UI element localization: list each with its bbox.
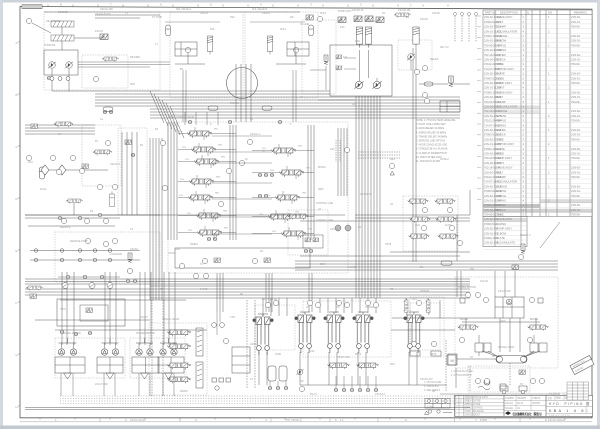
shutoff drop wires xyxy=(335,376,337,388)
main pump 1 xyxy=(355,81,364,88)
wire V4 xyxy=(73,203,75,215)
svg-text:5. TRAVEL RELIEF 34.8MPa: 5. TRAVEL RELIEF 34.8MPa xyxy=(416,135,448,138)
drain pair xyxy=(126,279,130,283)
right verticals mid xyxy=(456,215,458,261)
opt port R xyxy=(431,351,441,356)
motor lever bracket xyxy=(109,338,111,343)
solenoid block B enclosure xyxy=(245,12,318,98)
travel motor M3 xyxy=(101,349,107,355)
svg-text:P LINE: P LINE xyxy=(200,288,208,291)
oval link D xyxy=(441,261,452,265)
bl bottom circles xyxy=(60,330,64,334)
svg-text:SOL VALVE B: SOL VALVE B xyxy=(252,8,267,11)
brake cyl R2 xyxy=(539,343,547,352)
travel valve 1 xyxy=(167,330,190,336)
svg-text:21N-60: 21N-60 xyxy=(432,12,441,15)
svg-text:FLANGE: FLANGE xyxy=(497,34,508,38)
svg-text:ACCUMULATO: ACCUMULATO xyxy=(497,241,516,245)
svg-text:21N: 21N xyxy=(340,26,345,29)
solenoid SA3 xyxy=(365,16,373,22)
svg-text:AUX2: AUX2 xyxy=(445,224,452,227)
balloon 10 xyxy=(422,92,427,97)
relief valve RV1 xyxy=(100,34,108,40)
table rows text xyxy=(484,15,581,216)
svg-text:10. PAINT AFTER ASSY: 10. PAINT AFTER ASSY xyxy=(416,156,442,159)
funnel xyxy=(141,373,149,379)
pilot valve L enclosure xyxy=(255,305,295,350)
lower box balloon 2 xyxy=(252,258,257,263)
svg-text:O-RING: O-RING xyxy=(497,199,507,203)
svg-text:SHUT OFF: SHUT OFF xyxy=(338,356,350,359)
control valve CV2 xyxy=(191,147,215,154)
mid-left cluster verticals xyxy=(121,132,123,215)
title center cells xyxy=(504,395,546,410)
balloon s2 xyxy=(483,297,488,302)
lower box balloon 3 xyxy=(179,263,184,268)
scan shadow right xyxy=(597,0,600,429)
opt balloon R xyxy=(431,341,436,346)
bl filter box inner xyxy=(80,305,108,321)
svg-text:ACCUMULATOR: ACCUMULATOR xyxy=(497,29,518,33)
balloon 12b xyxy=(421,225,426,230)
manifold verticals xyxy=(167,122,169,240)
M box wire xyxy=(457,358,496,360)
svg-text:COMPD: COMPD xyxy=(505,397,514,400)
balloon pr1 xyxy=(389,163,394,168)
oval link A xyxy=(208,106,218,110)
motor lever bracket xyxy=(144,338,146,343)
svg-text:21N-60: 21N-60 xyxy=(420,18,429,21)
leader xyxy=(32,23,51,33)
balloon 1 xyxy=(26,18,31,23)
svg-text:PLATE: PLATE xyxy=(497,236,506,240)
svg-text:NIPPLE: NIPPLE xyxy=(497,194,507,198)
pilot port 1 xyxy=(334,388,338,392)
svg-text:709-90-: 709-90- xyxy=(571,213,580,217)
brake valve R xyxy=(528,325,548,331)
svg-text:HOSE: HOSE xyxy=(497,76,505,80)
swing feed verticals xyxy=(456,271,458,297)
svg-text:PUMP ASSY: PUMP ASSY xyxy=(497,81,513,85)
row index ticks xyxy=(477,16,481,200)
valve V5 xyxy=(394,13,410,18)
revision table xyxy=(455,395,505,416)
pilot valve R enclosure xyxy=(410,303,440,350)
control valve CV10 xyxy=(275,195,299,202)
svg-text:RTN: RTN xyxy=(130,83,135,86)
strainer S1 diamond xyxy=(41,165,49,175)
valve stubs xyxy=(252,172,279,174)
top band horizontals xyxy=(95,14,160,16)
motor block 3 xyxy=(132,357,159,373)
svg-text:2. 21N-62-312: 2. 21N-62-312 xyxy=(424,386,439,388)
svg-text:21N-62-: 21N-62- xyxy=(571,15,581,19)
svg-text:21N-54: 21N-54 xyxy=(250,343,259,346)
balloon 9 xyxy=(414,69,419,74)
svg-text:21N: 21N xyxy=(178,131,182,133)
svg-text:B: B xyxy=(16,93,18,97)
pilot group balloons xyxy=(265,302,270,307)
travel motor M5 xyxy=(136,349,142,355)
svg-text:2. PILOT LINE 3.2MPa SET: 2. PILOT LINE 3.2MPa SET xyxy=(416,123,446,126)
svg-text:709-90-: 709-90- xyxy=(571,137,580,141)
motor lever bracket xyxy=(168,338,170,343)
svg-text:HI: HI xyxy=(262,150,265,153)
svg-text:709-90-: 709-90- xyxy=(571,175,580,179)
small fitting row xyxy=(212,378,217,382)
svg-text:CLAMP: CLAMP xyxy=(497,100,506,104)
wire xyxy=(295,53,297,64)
control valve CV9 xyxy=(279,170,303,177)
svg-text:21N-01-: 21N-01- xyxy=(571,170,581,174)
svg-text:709-90-: 709-90- xyxy=(571,81,580,85)
svg-text:住友建機株式会社（製造元）: 住友建機株式会社（製造元） xyxy=(513,411,544,416)
footer strip xyxy=(20,418,592,422)
pilot port 2 xyxy=(342,388,346,392)
gauge A xyxy=(185,47,190,52)
motor block 1 xyxy=(55,357,85,373)
valve stubs xyxy=(252,197,275,199)
svg-text:SERVICE PORT: SERVICE PORT xyxy=(70,240,88,243)
svg-text:SERVICE: SERVICE xyxy=(60,226,71,229)
quick coupler QC4A xyxy=(93,249,97,253)
pump internals xyxy=(359,50,361,81)
balloon s1 xyxy=(475,292,480,297)
control valve CV11 xyxy=(268,214,292,221)
service line 2 xyxy=(30,259,140,261)
bl group stems down xyxy=(60,373,62,396)
svg-text:DRAIN: DRAIN xyxy=(180,390,188,393)
shutoff 2 xyxy=(357,363,379,369)
cooler wires xyxy=(61,27,63,35)
svg-text:F R: F R xyxy=(343,56,347,59)
svg-text:21N-62-31220: 21N-62-31220 xyxy=(130,419,146,422)
pilot bus A horizontals xyxy=(95,90,330,92)
lower box valve 1 xyxy=(214,258,220,262)
svg-text:LO: LO xyxy=(318,208,321,211)
tank T1 xyxy=(268,366,276,381)
opt port L xyxy=(410,351,420,356)
svg-text:21N-01: 21N-01 xyxy=(200,12,209,15)
svg-text:VALVE ASSY: VALVE ASSY xyxy=(497,15,513,19)
parts table row lines xyxy=(483,19,592,216)
svg-text:REMARKS: REMARKS xyxy=(574,11,587,15)
control valve CV7 xyxy=(197,230,221,237)
oval link C xyxy=(424,82,433,86)
cooler-to-A lines xyxy=(78,61,170,63)
balloon 3 xyxy=(26,155,31,160)
svg-text:DR4: DR4 xyxy=(390,158,395,161)
valve stubs xyxy=(178,149,191,151)
svg-text:PUMP RM: PUMP RM xyxy=(44,44,55,47)
left small syms row2 xyxy=(58,216,62,220)
highlighted rows xyxy=(484,106,593,222)
mid-left enclosure 2 xyxy=(118,128,147,215)
svg-text:21N-01-: 21N-01- xyxy=(571,95,581,99)
pilot stubs xyxy=(262,298,264,316)
aux valve AV2 xyxy=(435,199,455,205)
check CH1 xyxy=(512,265,518,269)
travel valve 2 xyxy=(167,344,190,350)
aux unit L xyxy=(500,386,508,391)
svg-text:21N-27: 21N-27 xyxy=(140,316,149,319)
inlet valve top xyxy=(306,15,313,20)
svg-text:CONTROL LINE: CONTROL LINE xyxy=(316,220,333,222)
svg-text:709-90-: 709-90- xyxy=(571,43,580,47)
aux valve AV3 xyxy=(410,217,430,223)
aux dashed verticals xyxy=(445,340,447,392)
hose reel H1 xyxy=(128,253,132,263)
svg-text:21N: 21N xyxy=(330,148,335,151)
svg-text:ELBOW: ELBOW xyxy=(497,231,507,235)
svg-text:2 1 N - 6 2 - 3 1 2 2 0: 2 1 N - 6 2 - 3 1 2 2 0 xyxy=(549,415,570,417)
sign-off grid xyxy=(567,382,589,400)
option valve enclosure xyxy=(410,297,444,357)
svg-text:OP: OP xyxy=(432,390,436,393)
pilot valve PV2 xyxy=(295,312,316,353)
filter block xyxy=(440,101,460,112)
service line 1 xyxy=(30,250,140,252)
valve V2 xyxy=(102,57,118,62)
center long line y215 xyxy=(25,214,345,216)
parts table lower-left extension xyxy=(483,217,527,247)
svg-text:RETURN: RETURN xyxy=(130,56,140,59)
svg-text:709-90-: 709-90- xyxy=(571,100,580,104)
svg-text:709-90-: 709-90- xyxy=(571,156,580,160)
svg-text:LH: LH xyxy=(306,306,309,309)
travel valve 4 xyxy=(167,377,190,383)
balloon label line xyxy=(168,252,175,254)
svg-text:21N-01: 21N-01 xyxy=(262,12,271,15)
solenoid SA4 xyxy=(376,17,384,23)
swivel cross wires xyxy=(482,351,499,357)
svg-text:21N-01-: 21N-01- xyxy=(571,58,581,62)
travel motor M6 xyxy=(147,349,153,355)
svg-text:BRAKE: BRAKE xyxy=(530,318,539,321)
svg-text:4. SWING RELIEF 28.9MPa: 4. SWING RELIEF 28.9MPa xyxy=(416,131,447,134)
svg-text:21N: 21N xyxy=(272,231,276,233)
svg-text:ARM: ARM xyxy=(318,188,323,191)
valve stubs xyxy=(178,133,187,135)
brake cyl L1 xyxy=(475,343,483,352)
dashed vertical pair xyxy=(335,140,337,162)
aux valve enclosure xyxy=(398,40,432,70)
svg-text:21N-62-: 21N-62- xyxy=(571,166,581,170)
dashed pilot crossing xyxy=(358,151,400,153)
svg-text:SCALE: SCALE xyxy=(505,407,513,410)
svg-text:TANK: TANK xyxy=(275,353,282,356)
funnel xyxy=(165,373,173,379)
valve block A xyxy=(175,42,197,56)
option valve L xyxy=(404,298,409,314)
brake cyl L2 xyxy=(484,343,491,352)
svg-text:7. HOSE 21N-62-31220 USE: 7. HOSE 21N-62-31220 USE xyxy=(416,144,447,147)
aux valve AV4 xyxy=(436,217,456,223)
pilot valve PV1 xyxy=(253,314,274,355)
quick coupler QC3A xyxy=(78,249,82,253)
svg-text:HOSE: HOSE xyxy=(497,152,505,156)
svg-text:PUMP ASSY: PUMP ASSY xyxy=(497,156,513,160)
svg-text:APPRV: APPRV xyxy=(532,402,540,405)
svg-text:21N: 21N xyxy=(270,170,274,172)
check pair xyxy=(103,110,107,114)
svg-text:709-90-: 709-90- xyxy=(571,25,580,29)
svg-text:2. OPTION PORT B: 2. OPTION PORT B xyxy=(451,375,472,377)
svg-text:21N-01-: 21N-01- xyxy=(571,189,581,193)
control valve CV5 xyxy=(188,195,212,202)
svg-text:PB: PB xyxy=(390,288,394,291)
swing wires xyxy=(465,318,467,325)
svg-text:21N: 21N xyxy=(180,179,184,181)
svg-text:6. SERVICE LINE OPTION: 6. SERVICE LINE OPTION xyxy=(416,140,445,143)
balloon b1 xyxy=(223,338,228,343)
swing motor block xyxy=(495,297,524,318)
svg-text:21N-01-: 21N-01- xyxy=(571,76,581,80)
svg-text:PPC: PPC xyxy=(390,363,395,366)
quick coupler QC1B xyxy=(34,258,38,262)
drop node 462 xyxy=(461,13,464,16)
svg-text:1. OPTION LINE: 1. OPTION LINE xyxy=(424,382,442,384)
svg-text:TRAVEL MOTOR: TRAVEL MOTOR xyxy=(136,332,155,335)
acc balloons xyxy=(56,169,61,174)
balloon 11 xyxy=(424,98,429,103)
travel motor M7 xyxy=(160,349,166,355)
aux circle L xyxy=(502,390,506,394)
travel motor M2 xyxy=(70,349,76,355)
travel valve bank enclosure xyxy=(149,323,207,395)
svg-text:21N-62: 21N-62 xyxy=(505,402,514,405)
relief RV2 xyxy=(449,76,453,87)
svg-text:NIPPLE: NIPPLE xyxy=(497,43,507,47)
node pair xyxy=(207,237,211,241)
svg-text:MAIN CONTROL VALVE: MAIN CONTROL VALVE xyxy=(168,116,195,119)
swivel joint xyxy=(496,356,527,364)
tank drop wires xyxy=(269,381,271,386)
pump station box xyxy=(330,45,392,96)
balloon m1 xyxy=(226,168,231,173)
travel motor M4 xyxy=(112,349,118,355)
svg-text:E: E xyxy=(16,249,18,253)
gear pump xyxy=(296,369,303,375)
option valve R xyxy=(426,298,431,314)
control valve CV6 xyxy=(196,213,220,220)
bl gauge circles xyxy=(62,283,68,289)
grommet 1 xyxy=(335,225,341,231)
top line y12 xyxy=(44,11,300,13)
manifold down verticals xyxy=(216,273,218,312)
mini valve box xyxy=(303,235,323,248)
fitting circle xyxy=(215,386,219,390)
left bus valves xyxy=(26,286,42,291)
grommet 2 xyxy=(345,225,351,231)
svg-text:21N-60-181: 21N-60-181 xyxy=(398,9,411,12)
M box xyxy=(448,354,457,365)
svg-text:FORM: FORM xyxy=(480,419,487,422)
group A drop verticals xyxy=(182,70,184,122)
lower box valve 2 xyxy=(264,258,270,262)
brake cyl R1 xyxy=(530,343,538,352)
aux valve xyxy=(519,370,525,374)
drop node 455 xyxy=(454,13,457,16)
control valve CV4 xyxy=(189,179,213,186)
balloon s0 xyxy=(465,292,470,297)
svg-text:O-RING: O-RING xyxy=(497,123,507,127)
svg-text:FLANGE: FLANGE xyxy=(497,184,508,188)
top labels row extra lines xyxy=(165,21,220,23)
shuttle circles 1 xyxy=(258,173,262,177)
wire to RV1 xyxy=(74,37,100,39)
hatch strip top-left xyxy=(22,5,42,9)
mini valve 1 xyxy=(305,238,311,242)
title block outer xyxy=(455,395,593,416)
balloon 14 xyxy=(518,254,523,259)
junction block xyxy=(447,355,456,365)
svg-text:MOTOR ASSY: MOTOR ASSY xyxy=(497,67,515,71)
balloon s3 xyxy=(529,297,534,302)
aux valve AV6 xyxy=(438,234,458,240)
control valve CV3 xyxy=(194,159,218,166)
aux control enclosure xyxy=(288,210,328,255)
svg-text:21N-62-31220: 21N-62-31220 xyxy=(95,13,111,16)
balloon m0 xyxy=(162,185,167,190)
svg-text:DR3: DR3 xyxy=(320,263,325,266)
accumulator AC1 xyxy=(39,167,44,179)
svg-text:OPTION: OPTION xyxy=(420,290,429,293)
svg-text:21N-62 KBA145: 21N-62 KBA145 xyxy=(548,419,566,422)
pilot port 5 xyxy=(366,388,370,392)
svg-text:OPT3: OPT3 xyxy=(430,353,437,356)
svg-text:PART NO.: PART NO. xyxy=(485,11,497,15)
svg-text:SWIVEL JOINT: SWIVEL JOINT xyxy=(498,346,515,349)
legend table xyxy=(425,399,450,409)
bottom right connect xyxy=(391,329,455,331)
main control valve enclosure xyxy=(168,122,348,273)
solenoid block A enclosure xyxy=(170,12,243,98)
aux block xyxy=(500,384,506,389)
balloon 5 xyxy=(70,155,75,160)
wire xyxy=(187,53,189,64)
control valve CV8 xyxy=(271,148,295,155)
svg-text:O-RING: O-RING xyxy=(497,222,507,226)
svg-text:S/N: S/N xyxy=(548,12,552,15)
aux text rows xyxy=(451,371,473,377)
balloon m4 xyxy=(344,147,349,152)
svg-text:FILTER: FILTER xyxy=(497,53,506,57)
return bus B xyxy=(295,260,558,262)
svg-text:BLOCK: BLOCK xyxy=(497,133,506,137)
aux circle R xyxy=(521,390,525,394)
svg-text:21N-62-: 21N-62- xyxy=(571,90,581,94)
svg-text:OPT2: OPT2 xyxy=(385,243,392,246)
svg-text:21N-62-1: 21N-62-1 xyxy=(250,133,261,136)
travel motor M1 xyxy=(58,349,64,355)
left circles xyxy=(97,184,102,189)
bus A left tails xyxy=(25,124,95,126)
strainer S2 diamond xyxy=(58,165,66,175)
travel manifold 2 xyxy=(196,362,203,388)
tank port 1 xyxy=(268,386,272,390)
svg-text:DRAWN: DRAWN xyxy=(517,397,526,400)
svg-text:21N-01-: 21N-01- xyxy=(571,20,581,24)
svg-text:PP: PP xyxy=(160,288,164,291)
balloon m2 xyxy=(239,160,244,165)
oil cooler core 2 xyxy=(51,35,74,41)
pilot port 3 xyxy=(350,388,354,392)
svg-text:DESCRIPTION: DESCRIPTION xyxy=(500,11,518,15)
inlet balloon xyxy=(317,16,322,21)
svg-text:OIL COOLER: OIL COOLER xyxy=(46,20,61,23)
svg-text:PILOT: PILOT xyxy=(310,393,317,396)
